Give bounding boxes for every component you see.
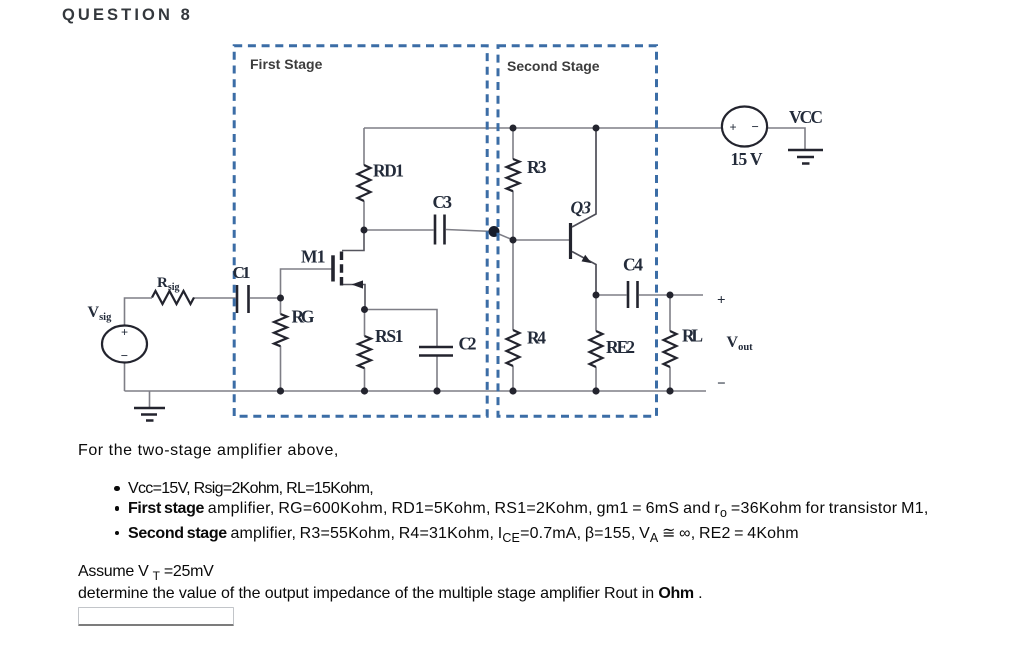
svg-text:Second Stage: Second Stage xyxy=(507,58,600,74)
svg-text:C3: C3 xyxy=(433,192,453,212)
svg-text:Q3: Q3 xyxy=(571,198,592,218)
svg-text:−: − xyxy=(121,348,128,363)
svg-text:C1: C1 xyxy=(233,263,251,282)
svg-text:−: − xyxy=(752,119,759,134)
svg-text:Vsig: Vsig xyxy=(88,304,113,323)
svg-text:First Stage: First Stage xyxy=(250,56,323,72)
svg-text:Vout: Vout xyxy=(727,334,754,353)
svg-text:RG: RG xyxy=(292,307,315,327)
svg-text:Rsig: Rsig xyxy=(157,275,180,293)
svg-text:+: + xyxy=(730,121,737,135)
svg-text:R4: R4 xyxy=(527,328,546,348)
svg-text:RS1: RS1 xyxy=(375,326,404,346)
svg-text:RL: RL xyxy=(682,326,703,346)
svg-text:+: + xyxy=(717,293,726,309)
svg-text:+: + xyxy=(121,326,128,340)
svg-text:RE2: RE2 xyxy=(606,337,635,357)
svg-text:C4: C4 xyxy=(623,255,643,275)
svg-text:RD1: RD1 xyxy=(373,161,404,181)
svg-text:C2: C2 xyxy=(459,334,477,354)
svg-text:R3: R3 xyxy=(527,157,547,177)
svg-text:M1: M1 xyxy=(301,247,326,267)
svg-text:VCC: VCC xyxy=(789,107,823,127)
svg-text:−: − xyxy=(717,376,726,392)
svg-text:15 V: 15 V xyxy=(731,149,763,169)
